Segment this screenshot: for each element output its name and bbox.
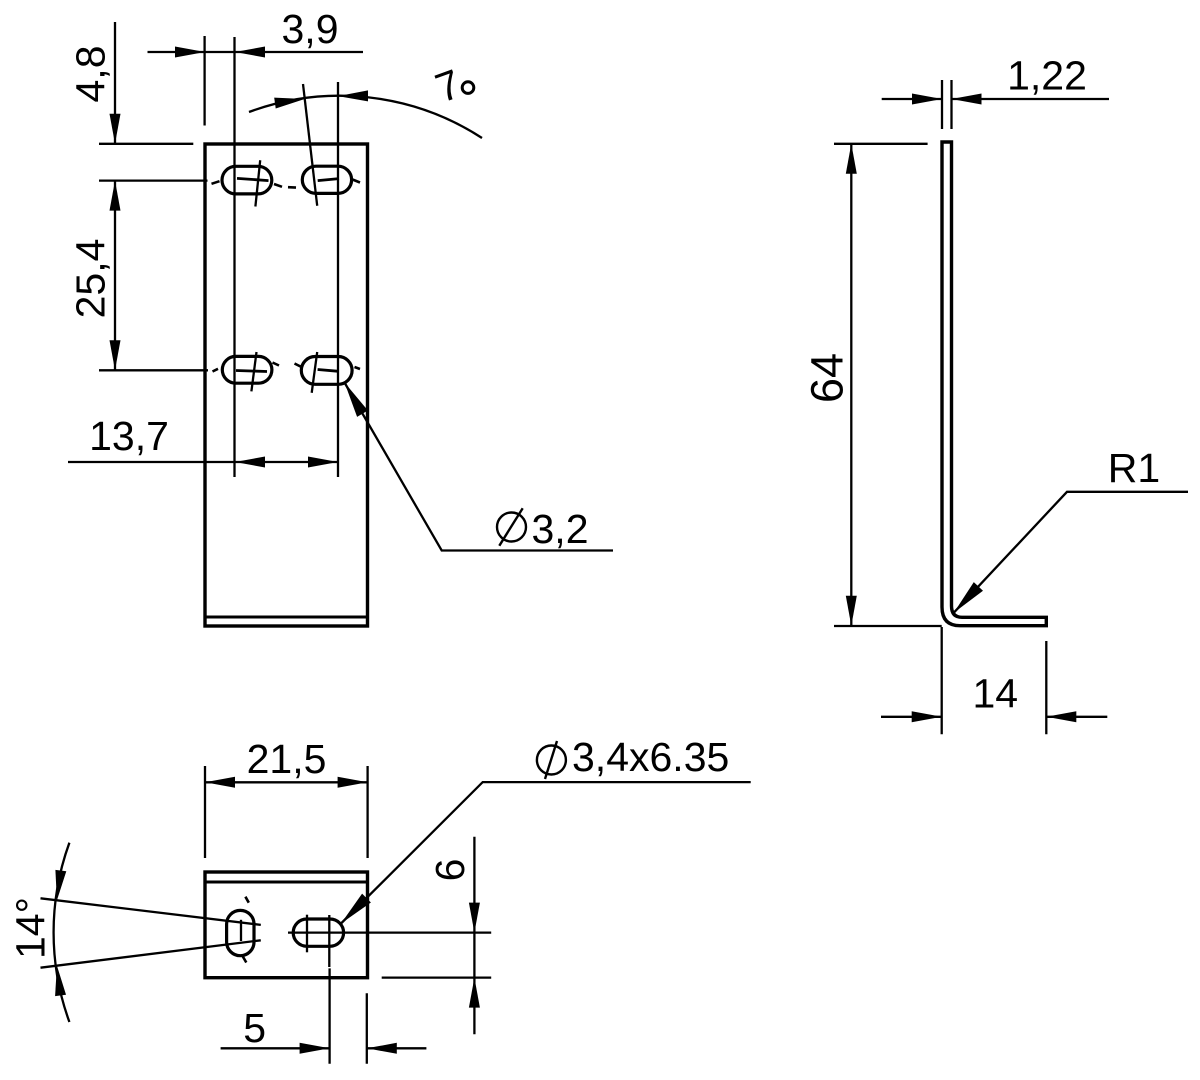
diameter symbol 3,2 — [497, 513, 526, 542]
bottom view plate outline — [205, 872, 368, 978]
slot C2 center tick right — [328, 915, 330, 967]
slot A2 inner edge — [318, 179, 339, 181]
arrow 64 bottom — [846, 596, 857, 626]
extension line upper slot row center — [99, 179, 208, 181]
extension line 64 top — [834, 143, 928, 145]
svg-text:3,9: 3,9 — [282, 6, 339, 52]
slot C1 dash above — [245, 897, 248, 903]
dimension 21,5 line — [205, 781, 368, 783]
slot B1 (front view bottom-left obround) — [222, 356, 272, 383]
arrow 1,22 left — [912, 94, 942, 105]
dashed center trace row 2 — [213, 363, 361, 372]
extension line top edge — [99, 143, 193, 145]
arrow 4,8 bottom (up) — [110, 181, 121, 211]
svg-text:14: 14 — [972, 671, 1018, 717]
svg-text:64: 64 — [802, 353, 853, 403]
arrowheads — [55, 47, 1076, 1054]
svg-text:14°: 14° — [8, 897, 54, 959]
arrow 21,5 left — [205, 777, 235, 788]
arrow 14deg arc upper — [55, 870, 66, 901]
slot B2 inner edge — [318, 370, 339, 372]
svg-text:3,2: 3,2 — [532, 506, 589, 552]
arrow 1,22 right — [952, 94, 982, 105]
arrow 64 top — [846, 144, 857, 174]
dimension 4,8 / 25,4 vertical dimension line — [114, 22, 116, 144]
slot A2 (front view top-right obround) — [302, 166, 351, 193]
arrow 6 lower (up) — [469, 978, 480, 1008]
arrow leader 3,2 — [345, 383, 368, 417]
slot C2 (bottom view right obround) — [293, 919, 343, 946]
slot B2 (front view bottom-right obround) — [301, 357, 352, 385]
slot C2 center tick left — [306, 915, 308, 953]
arrow 3,9 left — [175, 47, 205, 58]
arrow 13,7 right — [308, 457, 338, 468]
slot B2 tilted center line — [312, 352, 318, 393]
leader line R1 — [954, 492, 1188, 613]
dimension 6 line — [473, 837, 475, 1034]
arrow 7deg arc right — [338, 90, 368, 101]
extension line lower slot row center — [99, 369, 208, 371]
extension line of plate left edge above — [203, 36, 205, 126]
side view L profile — [942, 142, 1046, 626]
leader line diameter 3,2 — [345, 383, 614, 551]
slot B1 inner edge — [236, 371, 267, 372]
tilted center line 7 degrees (slot A2, extended to angle dimension) — [303, 84, 317, 206]
extension lines 5 — [328, 968, 330, 1063]
dimension 1,22 lines — [882, 98, 942, 100]
arrow 5 left (right-pointing) — [300, 1043, 330, 1054]
leader line diameter 3,4x6.35 — [341, 782, 751, 923]
bottom view bend tangent line — [205, 881, 368, 884]
svg-text:6: 6 — [427, 859, 473, 882]
svg-text:5: 5 — [243, 1005, 266, 1051]
angular dimension 7 degrees arc — [249, 96, 482, 138]
dimension 64 line — [850, 144, 852, 626]
dimension 5 lines — [221, 1047, 330, 1049]
slot A1 inner edge — [237, 178, 269, 180]
arrow 14 right — [1046, 711, 1076, 722]
arrow 14deg arc lower — [55, 966, 66, 997]
svg-text:21,5: 21,5 — [247, 736, 327, 782]
slot A1 (front view top-left obround) — [222, 166, 272, 194]
svg-text:25,4: 25,4 — [68, 239, 114, 319]
dimension 13,7 line — [68, 461, 338, 463]
arrow 3,9 right — [235, 47, 265, 58]
arrow 7deg arc left — [274, 98, 305, 109]
dimension 14 lines (side view) — [881, 716, 942, 718]
angular dimension 14 degrees lower side — [41, 940, 261, 967]
arrow leader R1 — [954, 582, 983, 613]
svg-text:R1: R1 — [1108, 445, 1160, 491]
svg-text:13,7: 13,7 — [89, 413, 169, 459]
front view bend tangent line — [205, 616, 368, 619]
arrow 25,4 bottom (down) — [110, 340, 121, 370]
arrow leader 3,4 — [341, 894, 371, 924]
extension line bottom edge right — [382, 976, 492, 978]
dashed center trace row 1 — [212, 180, 361, 188]
vertical extension line through left slots x=234.5 — [233, 37, 235, 477]
slot C1 dash below — [243, 957, 247, 963]
arrow 13,7 left — [235, 457, 265, 468]
slot A1 tilted center line — [255, 160, 260, 206]
degree symbol of 7 — [462, 82, 474, 94]
slot C1 center tick — [240, 920, 242, 941]
vertical extension line through right slots x=338 — [337, 82, 339, 477]
arrow 14 left — [912, 711, 942, 722]
arrow 4,8 top (down) — [110, 114, 121, 144]
center line through slot C2 — [288, 931, 491, 933]
arrow 5 right (left-pointing) — [367, 1043, 397, 1054]
slot B1 tilted center line — [251, 352, 256, 391]
arrow 6 upper (down) — [469, 903, 480, 933]
extension lines 21,5 — [204, 766, 206, 858]
extension line 64 bottom — [834, 625, 942, 627]
arrow 21,5 right — [338, 777, 368, 788]
slot C1 (bottom view left obround) — [227, 910, 254, 955]
extension lines 14 — [941, 627, 943, 734]
front view plate outline — [205, 144, 368, 626]
svg-text:4,8: 4,8 — [68, 46, 114, 103]
dimension 3,9 line — [148, 51, 364, 53]
angular dimension 14 degrees upper side — [41, 898, 261, 925]
diameter symbol 3,4 — [537, 746, 566, 775]
extension lines 1,22 — [941, 80, 943, 129]
angular dimension 14 degrees arc — [54, 843, 70, 1022]
svg-text:3,4x6.35: 3,4x6.35 — [572, 734, 729, 780]
svg-text:1,22: 1,22 — [1007, 53, 1087, 99]
